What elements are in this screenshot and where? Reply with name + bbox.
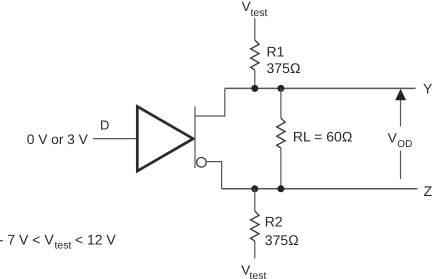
label Vtest range condition xyxy=(0,232,116,252)
svg-text:R2: R2 xyxy=(265,214,283,230)
node Vtest (bottom) xyxy=(241,262,266,279)
resistor RL xyxy=(277,118,285,148)
wire R1 to top rail xyxy=(254,70,256,88)
wire VOD upper segment xyxy=(400,100,402,127)
resistor R2 xyxy=(251,211,259,241)
svg-text:RL = 60Ω: RL = 60Ω xyxy=(293,128,353,144)
svg-text:Y: Y xyxy=(423,81,433,97)
svg-text:test: test xyxy=(250,270,267,279)
svg-text:- 7 V < V: - 7 V < V xyxy=(0,232,54,248)
svg-text:test: test xyxy=(55,240,72,252)
svg-text:0 V or 3 V: 0 V or 3 V xyxy=(27,132,89,147)
wire input D xyxy=(93,138,136,140)
arrow VOD (up, at Y rail) xyxy=(395,89,406,101)
junction dot RL/bottom rail xyxy=(277,185,284,192)
wire Vtest-top to R1 xyxy=(254,18,256,40)
svg-text:D: D xyxy=(100,118,109,133)
wire bottom rail to R2 xyxy=(254,189,256,211)
wire RL to bottom rail xyxy=(280,148,282,189)
label R2 value xyxy=(265,214,299,248)
wire VOD lower segment xyxy=(400,151,402,179)
junction dot R2/bottom rail xyxy=(251,185,258,192)
wire top rail to Y xyxy=(225,87,416,89)
resistor R1 xyxy=(251,40,259,70)
node Vtest (top) xyxy=(242,0,268,19)
junction dot RL/top rail xyxy=(277,85,284,92)
wire R2 to Vtest-bottom xyxy=(254,241,256,259)
svg-text:V: V xyxy=(388,131,397,146)
junction dot R1/top rail xyxy=(251,85,258,92)
svg-text:test: test xyxy=(251,7,268,19)
driver output bar xyxy=(194,107,196,169)
svg-text:R1: R1 xyxy=(267,44,285,60)
svg-text:375Ω: 375Ω xyxy=(265,232,299,248)
wire top rail to RL xyxy=(280,88,282,118)
svg-text:OD: OD xyxy=(397,139,412,150)
op-amp driver U1 triangle xyxy=(137,107,193,172)
svg-text:V: V xyxy=(242,0,251,14)
wire Z pin to bottom rail xyxy=(206,162,221,189)
wire Y pin to top rail xyxy=(195,88,225,116)
label VOD xyxy=(388,131,413,151)
svg-text:375Ω: 375Ω xyxy=(267,60,301,76)
label R1 value xyxy=(267,44,301,77)
wire bottom rail to Z xyxy=(222,188,418,190)
inverting bubble xyxy=(197,158,207,168)
svg-text:< 12 V: < 12 V xyxy=(75,232,117,248)
svg-text:Z: Z xyxy=(424,183,433,199)
